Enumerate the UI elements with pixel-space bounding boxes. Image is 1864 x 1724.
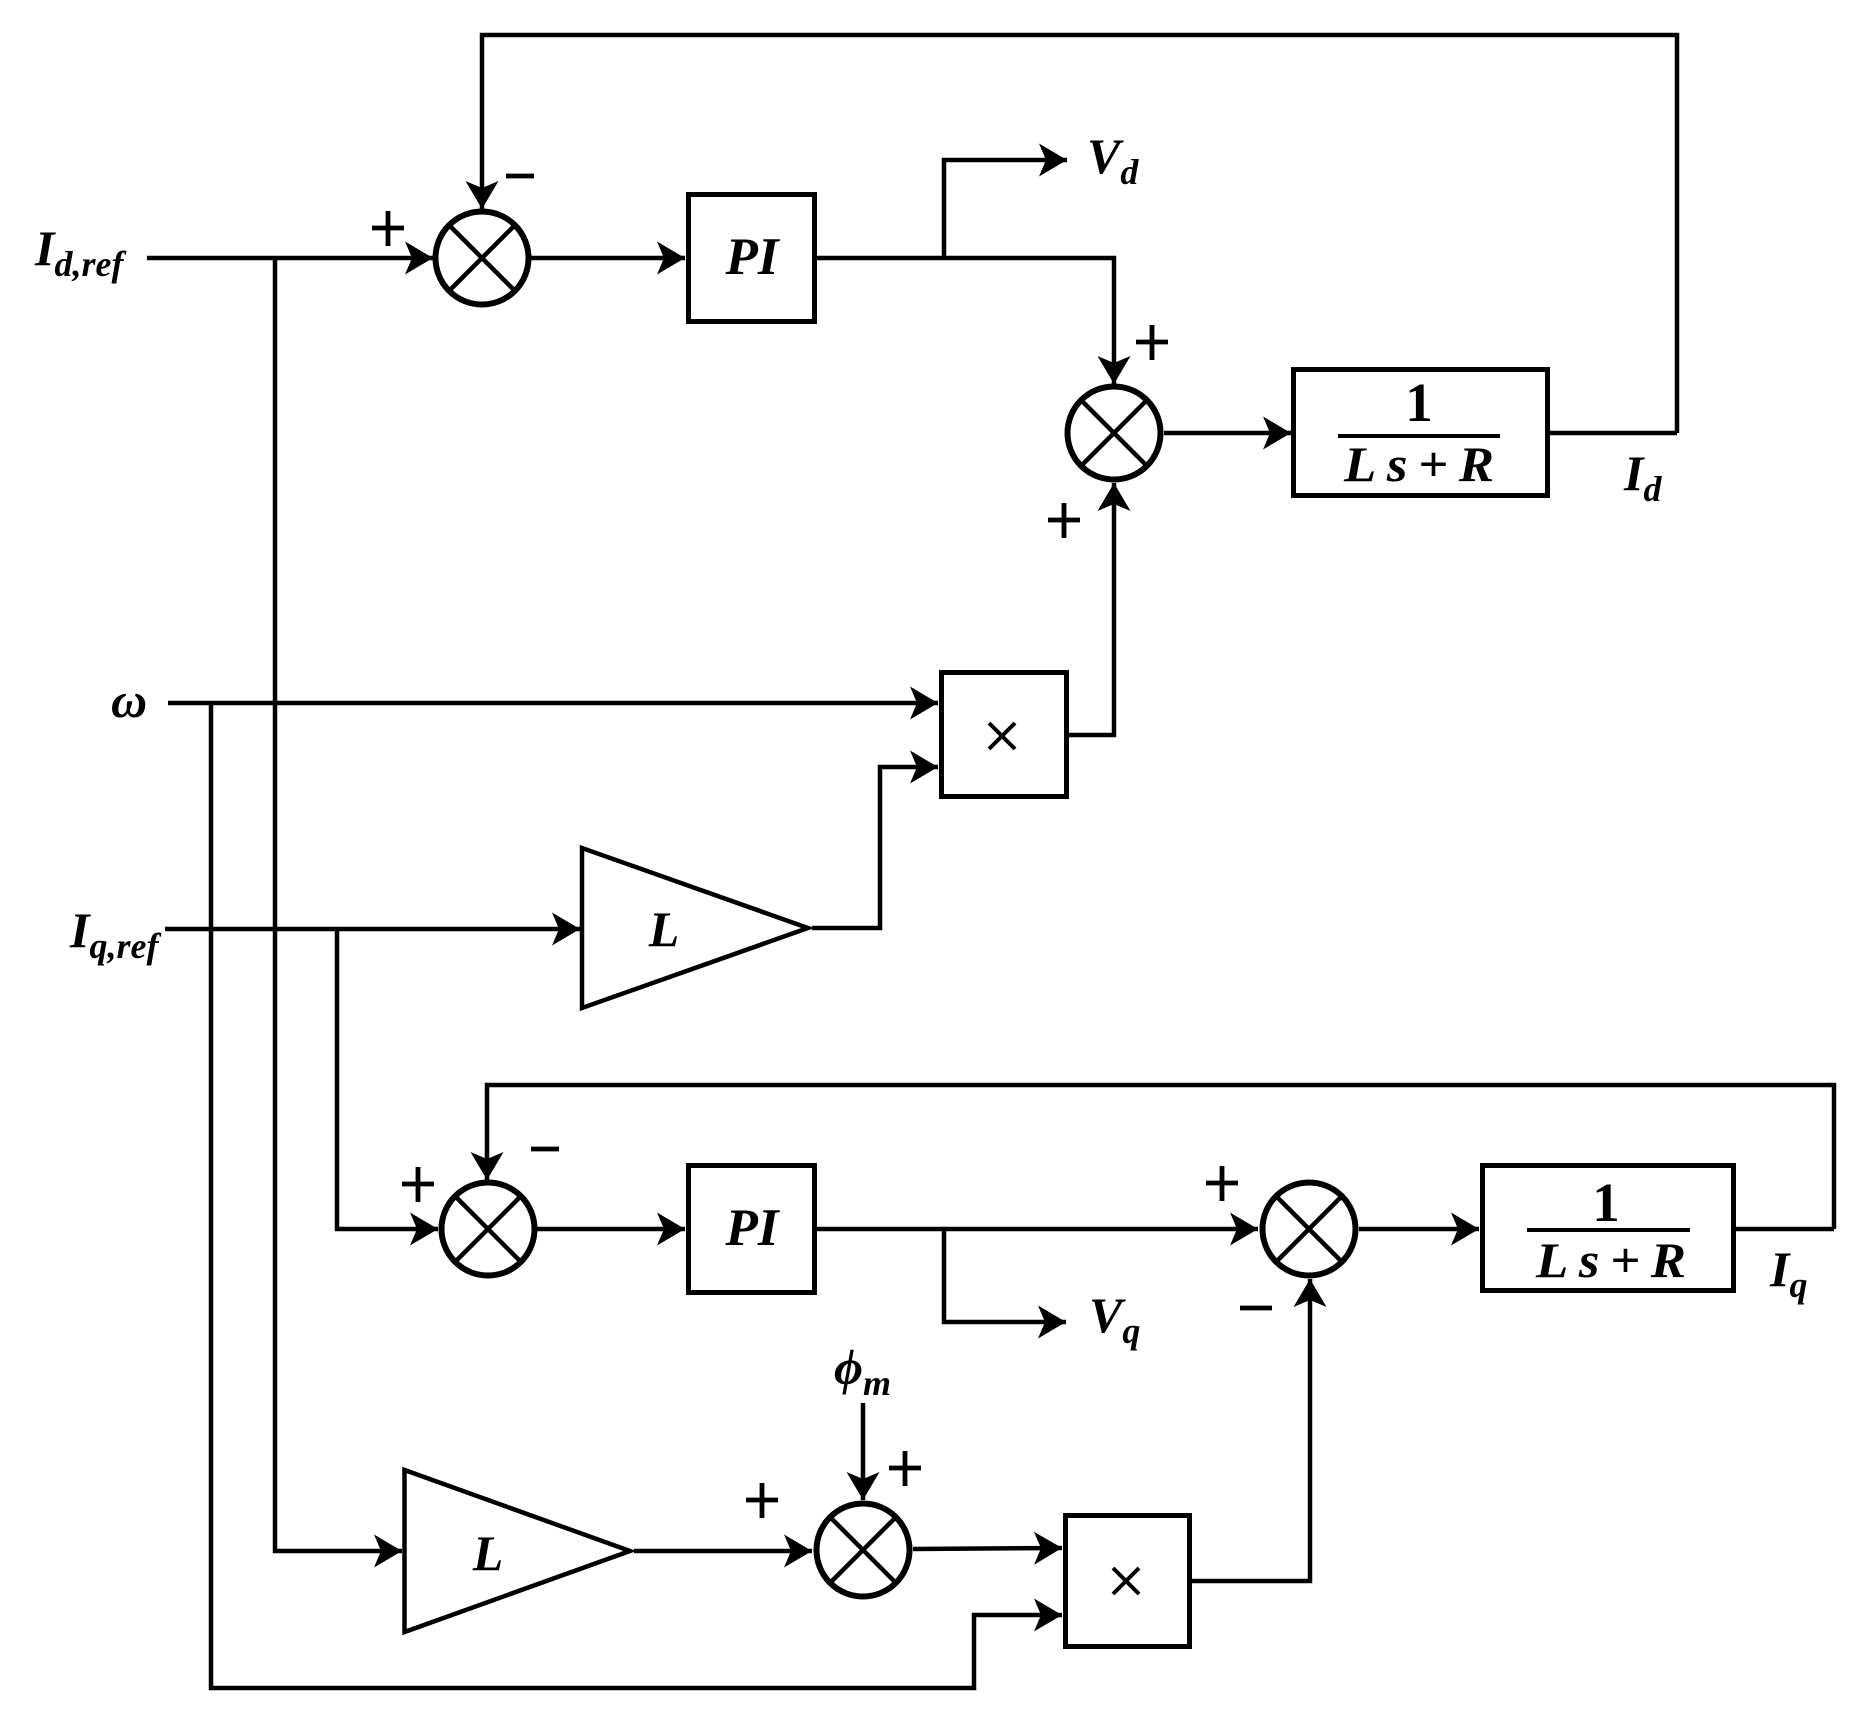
svg-text:PI: PI — [725, 228, 781, 286]
svg-text:Vq: Vq — [1089, 1287, 1140, 1351]
svg-text:L s + R: L s + R — [1535, 1232, 1686, 1288]
svg-text:1: 1 — [1405, 372, 1433, 433]
svg-text:ω: ω — [111, 672, 147, 728]
svg-text:PI: PI — [725, 1199, 781, 1257]
svg-text:Vd: Vd — [1087, 128, 1139, 192]
svg-text:Id,ref: Id,ref — [34, 220, 126, 284]
svg-text:Iq,ref: Iq,ref — [69, 902, 161, 966]
svg-text:Id: Id — [1623, 445, 1662, 509]
svg-text:Iq: Iq — [1769, 1241, 1807, 1305]
svg-text:ϕm: ϕm — [834, 1339, 891, 1403]
svg-text:L: L — [648, 901, 680, 957]
svg-text:L s + R: L s + R — [1343, 436, 1494, 492]
svg-text:1: 1 — [1592, 1172, 1620, 1233]
svg-text:L: L — [472, 1525, 504, 1581]
